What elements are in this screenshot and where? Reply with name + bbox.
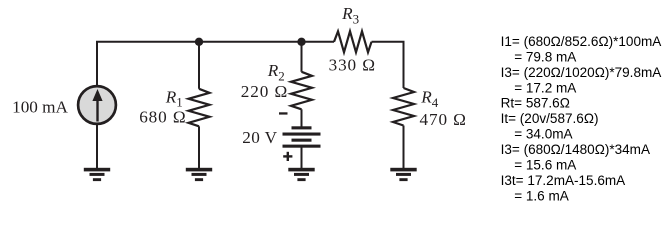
svg-text:= 79.8 mA: = 79.8 mA bbox=[514, 49, 577, 64]
wire R1 branch bottom bbox=[198, 126, 200, 168]
svg-text:220 Ω: 220 Ω bbox=[241, 82, 288, 101]
wire top bus right segment bbox=[372, 42, 404, 88]
wire source to ground bbox=[96, 125, 98, 169]
battery minus sign bbox=[279, 112, 288, 114]
wire top bus left segment bbox=[97, 42, 334, 85]
svg-text:20 V: 20 V bbox=[242, 128, 277, 147]
svg-text:I3= (220Ω/1020Ω)*79.8mA: I3= (220Ω/1020Ω)*79.8mA bbox=[501, 65, 663, 80]
ground under R4 bbox=[390, 168, 416, 181]
resistor R4 zigzag bbox=[393, 88, 414, 126]
resistor R1 zigzag bbox=[189, 89, 210, 127]
svg-text:I1= (680Ω/852.6Ω)*100mA: I1= (680Ω/852.6Ω)*100mA bbox=[501, 34, 663, 49]
svg-text:= 17.2 mA: = 17.2 mA bbox=[514, 80, 577, 95]
svg-text:= 34.0mA: = 34.0mA bbox=[514, 127, 573, 142]
svg-text:R2: R2 bbox=[267, 61, 285, 83]
svg-text:470 Ω: 470 Ω bbox=[420, 110, 466, 129]
svg-text:330 Ω: 330 Ω bbox=[329, 55, 375, 74]
svg-text:I3t= 17.2mA-15.6mA: I3t= 17.2mA-15.6mA bbox=[501, 173, 627, 188]
wire R1 branch top bbox=[198, 42, 200, 89]
battery V 20 V plates bbox=[283, 126, 321, 147]
ground under R1 bbox=[186, 168, 212, 181]
current source I 100 mA bbox=[78, 86, 116, 124]
node junction R2 branch bbox=[297, 38, 305, 46]
svg-text:= 1.6 mA: = 1.6 mA bbox=[514, 188, 570, 203]
svg-text:R4: R4 bbox=[420, 88, 439, 110]
svg-text:I3= (680Ω/1480Ω)*34mA: I3= (680Ω/1480Ω)*34mA bbox=[501, 142, 651, 157]
node junction R1 branch bbox=[195, 38, 203, 46]
svg-text:680 Ω: 680 Ω bbox=[139, 107, 185, 126]
svg-text:It= (20v/587.6Ω): It= (20v/587.6Ω) bbox=[501, 111, 599, 126]
svg-text:= 15.6 mA: = 15.6 mA bbox=[514, 158, 577, 173]
svg-text:Rt= 587.6Ω: Rt= 587.6Ω bbox=[501, 96, 570, 111]
resistor R3 zigzag bbox=[334, 31, 372, 52]
wire R2 to battery bbox=[301, 109, 303, 127]
svg-text:100 mA: 100 mA bbox=[12, 98, 68, 117]
wire battery to ground bbox=[301, 148, 303, 169]
ground under battery bbox=[288, 168, 314, 181]
battery plus sign bbox=[283, 152, 292, 161]
ground under current source bbox=[84, 168, 110, 181]
svg-text:R3: R3 bbox=[341, 4, 359, 26]
wire R2 branch top bbox=[301, 42, 303, 72]
resistor R2 zigzag bbox=[291, 72, 312, 110]
wire R4 branch bottom bbox=[403, 126, 405, 169]
